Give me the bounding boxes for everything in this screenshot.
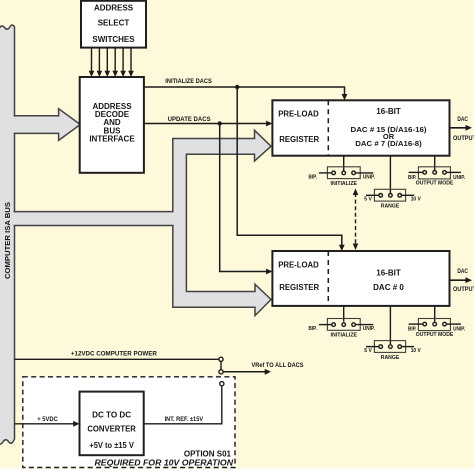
- svg-text:5 V: 5 V: [364, 348, 372, 354]
- svg-text:INITIALIZE DACS: INITIALIZE DACS: [165, 78, 212, 85]
- svg-text:OPTION S01: OPTION S01: [184, 449, 232, 458]
- box: PRE-LOAD REGISTER / 16-BIT DAC #0: [272, 251, 449, 306]
- svg-text:REGISTER: REGISTER: [279, 283, 319, 292]
- svg-text:REGISTER: REGISTER: [279, 135, 319, 144]
- jumper J1 INITIALIZE (DAC1): [309, 156, 376, 187]
- jumper J5 RANGE (DAC2): [364, 306, 421, 361]
- big gray arrow into address decode: [15, 109, 81, 141]
- svg-text:ADDRESS: ADDRESS: [94, 4, 134, 13]
- box: ADDRESS SELECT SWITCHES: [81, 1, 146, 48]
- svg-text:UNIP.: UNIP.: [453, 175, 465, 181]
- svg-text:RANGE: RANGE: [381, 355, 400, 361]
- svg-text:DAC # 7 (D/A16-8): DAC # 7 (D/A16-8): [355, 139, 422, 148]
- svg-text:BIP.: BIP.: [309, 174, 318, 180]
- svg-text:COMPUTER ISA BUS: COMPUTER ISA BUS: [3, 202, 12, 279]
- wire: INITIALIZE DACS from decode to DAC1: [144, 85, 348, 101]
- box: DC TO DC CONVERTER: [80, 392, 144, 456]
- jumper J4 INITIALIZE (DAC2): [309, 306, 376, 339]
- svg-text:OUTPUT: OUTPUT: [453, 135, 474, 142]
- box: ADDRESS DECODE AND BUS INTERFACE: [80, 77, 144, 173]
- +12VDC computer power line: [15, 351, 224, 362]
- svg-text:OUTPUT: OUTPUT: [453, 286, 474, 293]
- wire: INITIALIZE branch to DAC2: [237, 87, 345, 251]
- svg-text:INITIALIZE: INITIALIZE: [331, 333, 358, 339]
- wire: UPDATE DACS from decode to DAC1: [144, 121, 273, 127]
- svg-text:UNIP.: UNIP.: [363, 174, 375, 180]
- svg-text:SWITCHES: SWITCHES: [92, 35, 135, 44]
- DAC2 output arrow: [450, 268, 474, 293]
- svg-text:RANGE: RANGE: [381, 204, 400, 210]
- svg-text:VRef TO ALL DACS: VRef TO ALL DACS: [252, 362, 305, 369]
- VRef jumper pads: [219, 362, 224, 386]
- svg-text:INT. REF. ±15V: INT. REF. ±15V: [165, 417, 204, 423]
- svg-text:OUTPUT MODE: OUTPUT MODE: [416, 332, 454, 338]
- svg-text:CONVERTER: CONVERTER: [87, 424, 136, 434]
- svg-text:16-BIT: 16-BIT: [376, 268, 401, 277]
- svg-text:INITIALIZE: INITIALIZE: [331, 181, 358, 187]
- svg-text:DC TO DC: DC TO DC: [92, 409, 131, 419]
- +5VDC wire into converter: [15, 417, 80, 427]
- dashed 5V link line between DAC1 range and DAC2: [353, 189, 359, 251]
- svg-text:REQUIRED FOR 10V OPERATION: REQUIRED FOR 10V OPERATION: [95, 458, 234, 467]
- svg-text:+12VDC COMPUTER POWER: +12VDC COMPUTER POWER: [71, 351, 157, 358]
- patches to merge gray shapes with bus: [13, 117, 15, 133]
- wire: UPDATE branch to DAC2: [220, 124, 273, 275]
- svg-text:UNIP.: UNIP.: [363, 326, 375, 332]
- svg-text:DAC: DAC: [457, 116, 468, 123]
- option S01 dashed box (white fill): [23, 377, 235, 468]
- svg-text:UNIP.: UNIP.: [453, 327, 465, 333]
- svg-text:PRE-LOAD: PRE-LOAD: [278, 261, 319, 270]
- svg-text:UPDATE DACS: UPDATE DACS: [168, 116, 212, 123]
- svg-text:+ 5VDC: + 5VDC: [37, 417, 58, 423]
- svg-text:BIP.: BIP.: [309, 326, 318, 332]
- svg-text:SELECT: SELECT: [98, 19, 130, 28]
- jumper J3 OUTPUT MODE (DAC1): [408, 156, 465, 187]
- gray bus fork (ISA band + vertical + two arrows into registers): [15, 130, 272, 315]
- svg-text:DAC # 0: DAC # 0: [373, 283, 404, 292]
- svg-text:DAC: DAC: [457, 268, 468, 275]
- 6 arrows from switches to decode: [92, 48, 132, 73]
- jumper J6 OUTPUT MODE (DAC2): [408, 306, 465, 338]
- INT REF wire from converter: [144, 386, 222, 424]
- jumper J2 RANGE (DAC1): [364, 156, 421, 210]
- svg-text:16-BIT: 16-BIT: [376, 107, 401, 116]
- svg-text:10 V: 10 V: [411, 197, 421, 203]
- computer ISA bus bar: [0, 25, 15, 444]
- box: PRE-LOAD REGISTER / 16-BIT DAC #15: [272, 100, 449, 155]
- svg-text:INTERFACE: INTERFACE: [89, 135, 135, 144]
- svg-text:5 V: 5 V: [364, 197, 372, 203]
- svg-text:10 V: 10 V: [411, 348, 421, 354]
- DAC1 output arrow: [450, 116, 474, 142]
- VRef TO ALL DACS arrow: [223, 362, 304, 375]
- svg-text:PRE-LOAD: PRE-LOAD: [278, 109, 319, 118]
- svg-text:+5V to ±15 V: +5V to ±15 V: [89, 440, 134, 450]
- svg-text:OUTPUT MODE: OUTPUT MODE: [416, 181, 454, 187]
